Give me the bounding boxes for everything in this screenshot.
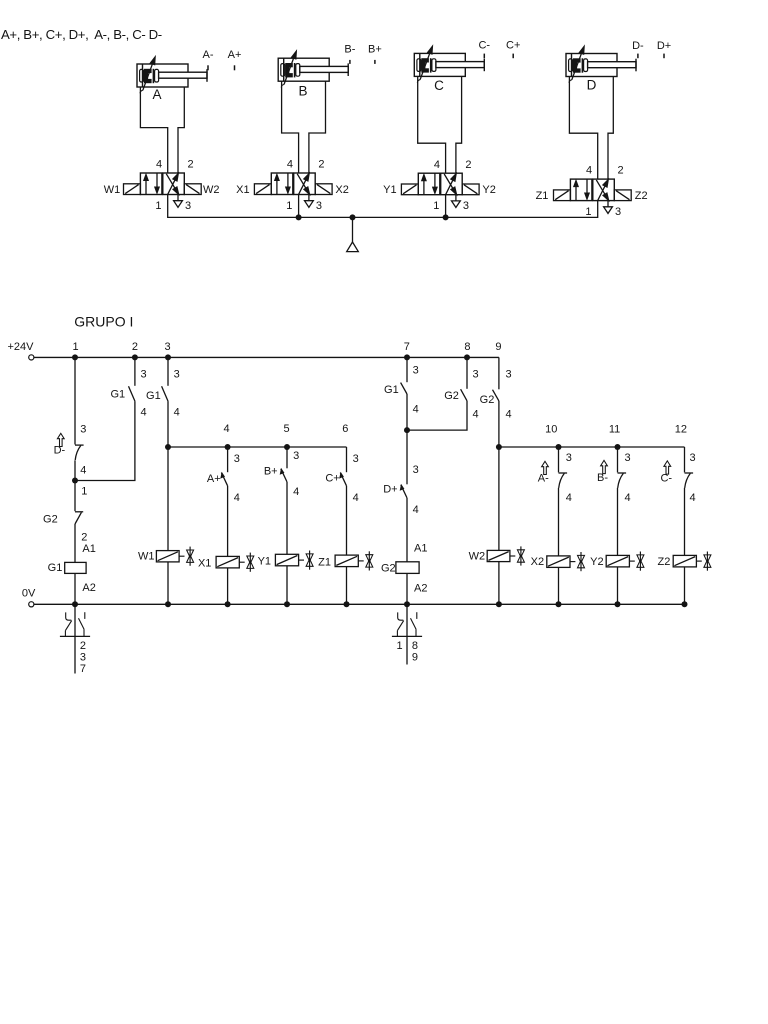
limit switch contact B- (NC): [618, 452, 631, 556]
position mark B-: [344, 43, 355, 64]
svg-text:A+: A+: [207, 473, 221, 485]
svg-text:6: 6: [342, 423, 348, 435]
rung 3 wire upper: [167, 357, 169, 385]
valve Y1/Y2 port numbers: [433, 159, 471, 212]
compressed air source: [347, 217, 359, 251]
limit switch contact D+ (NO): [383, 464, 419, 516]
wire: cylinder D tubing to valve ports 4/2: [569, 77, 613, 180]
relay G1 contact cross-reference table: [60, 604, 90, 675]
svg-text:3: 3: [293, 450, 299, 462]
valve Z1/Z2 port numbers: [585, 165, 623, 218]
svg-text:2: 2: [81, 532, 87, 544]
svg-text:4: 4: [472, 408, 478, 420]
rung 3 wire to sub-rail: [167, 401, 169, 447]
svg-text:A-: A-: [203, 49, 214, 61]
junction rung 11: [615, 444, 621, 450]
valve indicator for Z2: [696, 552, 711, 571]
relay contact G1 (NO) rung 2: [110, 368, 146, 418]
svg-text:3: 3: [413, 364, 419, 376]
wire: sub-rail group I (rungs 3-6): [168, 446, 347, 448]
svg-text:C+: C+: [325, 473, 339, 485]
svg-text:2: 2: [187, 159, 193, 171]
relay contact G1 (NO) rung 3: [146, 368, 180, 418]
limit switch contact C+ (NO): [325, 453, 358, 504]
position mark C-: [478, 40, 490, 59]
wire: sub-rail group II (rungs 9-12): [499, 446, 685, 448]
valve Y1/Y2 (5/2 double solenoid) body: [418, 173, 462, 195]
svg-text:8: 8: [412, 640, 418, 652]
cylinder A (double-acting, adjustable cushioning): [137, 64, 207, 87]
cylinder D cushioning adjustment arrow: [569, 47, 584, 83]
relay coil G2: [381, 543, 427, 605]
rung 1 wire upper: [74, 357, 76, 444]
solenoid Z2: [614, 190, 631, 201]
svg-text:X1: X1: [236, 184, 249, 196]
junction: valve X port 1 on bus: [296, 214, 302, 220]
svg-text:A1: A1: [414, 543, 427, 555]
junction rung 10: [556, 444, 562, 450]
position mark D-: [632, 40, 644, 58]
svg-text:3: 3: [505, 368, 511, 380]
svg-text:W1: W1: [138, 551, 155, 563]
svg-text:3: 3: [413, 464, 419, 476]
valve indicator for W2: [510, 546, 525, 565]
svg-text:2: 2: [132, 341, 138, 353]
svg-text:3: 3: [624, 452, 630, 464]
svg-text:B+: B+: [368, 43, 382, 55]
svg-text:W2: W2: [203, 184, 220, 196]
svg-text:A2: A2: [82, 582, 95, 594]
svg-text:4: 4: [413, 504, 419, 516]
cylinder A cushioning adjustment arrow: [140, 57, 155, 93]
svg-text:A: A: [152, 87, 161, 102]
svg-text:Y2: Y2: [482, 184, 495, 196]
svg-text:Z1: Z1: [536, 190, 549, 202]
valve indicator for X1: [239, 553, 254, 572]
svg-text:5: 5: [283, 423, 289, 435]
valve W1/W2 (5/2 double solenoid) body: [140, 173, 184, 195]
valve Z1/Z2 exhaust port 3: [604, 201, 613, 214]
valve X1/X2 port numbers: [286, 159, 324, 212]
junctions on +24V rail: [72, 354, 78, 360]
rung 9 wire from rail corner: [498, 357, 500, 389]
svg-text:4: 4: [624, 492, 630, 504]
svg-text:C-: C-: [660, 473, 672, 485]
solenoid coil Z1: [318, 555, 358, 604]
cylinder C (double-acting, adjustable cushioning): [414, 53, 484, 76]
svg-text:12: 12: [675, 424, 687, 436]
svg-text:D-: D-: [54, 445, 66, 457]
svg-text:+24V: +24V: [8, 341, 35, 353]
svg-text:G2: G2: [444, 390, 459, 402]
junction rung 5: [284, 444, 290, 450]
solenoid Y1: [401, 184, 418, 195]
rung 11 wire upper: [617, 447, 619, 472]
rung 4 wire lower: [227, 486, 229, 557]
position mark B+: [368, 43, 382, 64]
svg-text:G1: G1: [48, 562, 63, 574]
wire: compressed air supply bus (port 1 lines): [168, 195, 598, 218]
rung 1 wire middle: [74, 481, 76, 512]
svg-text:4: 4: [353, 492, 359, 504]
svg-text:3: 3: [185, 200, 191, 212]
actuated marker arrow B-: [597, 460, 608, 484]
svg-text:3: 3: [353, 453, 359, 465]
position mark A-: [203, 49, 214, 70]
rung 5 wire lower: [286, 482, 288, 554]
svg-text:1: 1: [397, 640, 403, 652]
svg-text:2: 2: [80, 640, 86, 652]
valve indicator for Z1: [358, 551, 373, 570]
svg-text:Z1: Z1: [318, 556, 331, 568]
wire rung 8 to rung 7 junction: [407, 401, 467, 430]
rung 4 wire upper: [227, 447, 229, 472]
junction: supply branch on bus: [350, 214, 356, 220]
svg-text:4: 4: [434, 159, 440, 171]
svg-text:G1: G1: [110, 389, 125, 401]
valve W1/W2 crossed arrows (rest position): [166, 174, 178, 195]
svg-text:G2: G2: [43, 513, 58, 525]
svg-text:4: 4: [287, 159, 293, 171]
valve indicator for Y1: [299, 551, 314, 570]
svg-text:A+: A+: [228, 49, 242, 61]
svg-text:A1: A1: [82, 543, 95, 555]
svg-text:D-: D-: [632, 40, 644, 52]
svg-text:D+: D+: [383, 483, 397, 495]
svg-text:0V: 0V: [22, 587, 36, 599]
svg-text:3: 3: [566, 452, 572, 464]
solenoid coil X2: [531, 556, 570, 604]
rung 8 wire: [466, 357, 468, 388]
rung 10 wire upper: [558, 447, 560, 472]
svg-text:2: 2: [318, 159, 324, 171]
limit switch contact B+ (NO): [264, 450, 299, 498]
junction rung7/rung8: [404, 427, 410, 433]
valve indicator for Y2: [629, 552, 644, 571]
svg-text:3: 3: [174, 368, 180, 380]
svg-text:B-: B-: [344, 43, 355, 55]
svg-text:B: B: [298, 84, 307, 99]
svg-text:3: 3: [234, 453, 240, 465]
valve indicator for X2: [570, 552, 585, 571]
svg-text:9: 9: [412, 651, 418, 663]
valve W1/W2 exhaust port 3: [174, 195, 183, 208]
svg-text:1: 1: [433, 200, 439, 212]
cylinder D (double-acting, adjustable cushioning): [566, 54, 636, 77]
svg-text:Y2: Y2: [590, 556, 603, 568]
svg-text:3: 3: [316, 200, 322, 212]
junction rung 9 sub-rail: [496, 444, 502, 450]
svg-text:4: 4: [234, 492, 240, 504]
rung 12 wire upper: [684, 447, 686, 472]
valve W1/W2 flow arrows (parallel position): [144, 173, 159, 195]
svg-text:2: 2: [617, 165, 623, 177]
svg-text:4: 4: [156, 159, 162, 171]
svg-text:10: 10: [545, 424, 557, 436]
svg-text:W2: W2: [469, 551, 486, 563]
svg-text:X2: X2: [531, 556, 544, 568]
junction rung1/rung2: [72, 478, 78, 484]
limit switch contact C- (NC): [685, 452, 696, 556]
svg-text:7: 7: [404, 341, 410, 353]
solenoid coil X1: [198, 556, 239, 604]
junction rung 4: [225, 444, 231, 450]
solenoid X1: [254, 184, 271, 195]
cylinder B cushioning adjustment arrow: [281, 51, 296, 87]
svg-text:X2: X2: [335, 184, 348, 196]
svg-text:1: 1: [81, 485, 87, 497]
svg-text:4: 4: [293, 486, 299, 498]
svg-text:4: 4: [141, 407, 147, 419]
position mark A+: [228, 49, 242, 70]
wire: cylinder C tubing to valve ports 4/2: [418, 76, 462, 173]
svg-text:4: 4: [566, 492, 572, 504]
svg-text:3: 3: [164, 341, 170, 353]
solenoid Y2: [462, 184, 479, 195]
svg-text:A-: A-: [538, 473, 549, 485]
rung 7 wire upper: [406, 357, 408, 382]
valve Z1/Z2 crossed arrows (rest position): [596, 180, 608, 201]
valve Z1/Z2 flow arrows (parallel position): [574, 179, 589, 201]
solenoid coil Y2: [590, 555, 629, 604]
svg-text:4: 4: [689, 492, 695, 504]
wire rung 2 to rung 1 junction: [75, 401, 135, 480]
svg-text:1: 1: [585, 206, 591, 218]
limit switch contact A+ (NO): [207, 453, 240, 504]
cylinder B (double-acting, adjustable cushioning): [278, 58, 348, 81]
svg-text:1: 1: [286, 200, 292, 212]
svg-text:4: 4: [224, 423, 230, 435]
svg-text:9: 9: [495, 341, 501, 353]
svg-text:3: 3: [141, 368, 147, 380]
rung numbers: [72, 341, 687, 436]
svg-text:Z2: Z2: [635, 190, 648, 202]
relay coil G1: [48, 543, 96, 604]
limit switch contact D- (NC): [75, 424, 86, 481]
valve Y1/Y2 flow arrows (parallel position): [422, 173, 437, 195]
svg-text:C: C: [434, 78, 444, 93]
rung 9 wire to sub-rail: [498, 401, 500, 447]
rung 3 wire lower: [167, 447, 169, 551]
position mark C+: [506, 40, 520, 59]
svg-text:C-: C-: [478, 40, 490, 52]
solenoid coil Z2: [657, 555, 696, 604]
limit switch contact A- (NC): [559, 452, 572, 556]
relay contact G2 (NC) rung 1: [43, 485, 87, 562]
svg-text:G2: G2: [381, 563, 396, 575]
rung 7 wire middle: [406, 394, 408, 430]
rung 2 wire: [134, 357, 136, 385]
solenoid Z1: [554, 190, 571, 201]
0V return rail: [22, 587, 685, 607]
+24V supply rail: [8, 341, 499, 360]
svg-text:3: 3: [80, 651, 86, 663]
solenoid coil Y1: [258, 554, 299, 604]
svg-text:4: 4: [586, 165, 592, 177]
valve indicator for W1: [179, 547, 194, 566]
svg-text:3: 3: [80, 424, 86, 436]
svg-text:4: 4: [413, 403, 419, 415]
relay contact G2 (NO) rung 8: [444, 368, 478, 420]
svg-text:GRUPO I: GRUPO I: [74, 313, 133, 329]
solenoid X2: [315, 184, 332, 195]
svg-text:Y1: Y1: [258, 556, 271, 568]
actuated marker arrow C-: [660, 461, 672, 485]
valve X1/X2 crossed arrows (rest position): [297, 174, 309, 195]
valve Y1/Y2 crossed arrows (rest position): [444, 174, 456, 195]
valve Z1/Z2 (5/2 double solenoid) body: [570, 179, 614, 201]
valve Y1/Y2 exhaust port 3: [452, 195, 461, 208]
junction: valve Y port 1 on bus: [443, 214, 449, 220]
position mark D+: [657, 40, 671, 58]
svg-text:2: 2: [465, 159, 471, 171]
rung 7 wire to contact D+: [406, 430, 408, 484]
actuated marker arrow A-: [538, 461, 549, 484]
valve X1/X2 flow arrows (parallel position): [275, 173, 290, 195]
rung 7 wire lower: [406, 498, 408, 562]
svg-text:Z2: Z2: [657, 556, 670, 568]
svg-text:11: 11: [609, 424, 620, 436]
svg-text:G2: G2: [480, 394, 495, 406]
relay G2 contact cross-reference table: [392, 604, 422, 664]
svg-text:3: 3: [472, 368, 478, 380]
svg-text:4: 4: [505, 408, 511, 420]
svg-text:B+: B+: [264, 466, 278, 478]
valve W1/W2 port numbers: [155, 159, 193, 212]
svg-text:X1: X1: [198, 558, 211, 570]
relay contact G1 (NO) rung 7: [384, 364, 419, 415]
svg-text:A+, B+, C+, D+, A-, B-, C- D-: A+, B+, C+, D+, A-, B-, C- D-: [1, 27, 162, 42]
valve X1/X2 (5/2 double solenoid) body: [271, 173, 315, 195]
svg-text:3: 3: [463, 200, 469, 212]
junctions on 0V rail: [72, 601, 78, 607]
svg-text:C+: C+: [506, 40, 520, 52]
actuated marker arrow D-: [54, 433, 66, 456]
svg-text:D+: D+: [657, 40, 671, 52]
relay contact G2 (NO) rung 9: [480, 368, 512, 420]
svg-text:Y1: Y1: [383, 184, 396, 196]
cylinder C cushioning adjustment arrow: [417, 46, 432, 82]
valve X1/X2 exhaust port 3: [305, 195, 314, 208]
svg-text:W1: W1: [104, 184, 121, 196]
solenoid W2: [184, 184, 201, 195]
svg-text:3: 3: [615, 206, 621, 218]
svg-text:A2: A2: [414, 582, 427, 594]
svg-text:3: 3: [689, 452, 695, 464]
svg-text:4: 4: [174, 407, 180, 419]
svg-text:7: 7: [80, 663, 86, 675]
svg-text:8: 8: [464, 341, 470, 353]
solenoid coil W1: [138, 551, 179, 605]
rung 5 wire upper: [286, 447, 288, 468]
svg-text:B-: B-: [597, 472, 608, 484]
svg-text:4: 4: [80, 465, 86, 477]
rung 9 wire lower: [498, 447, 500, 550]
rung 6 wire lower: [346, 486, 348, 555]
svg-text:1: 1: [155, 200, 161, 212]
svg-text:G1: G1: [384, 384, 399, 396]
svg-text:1: 1: [72, 341, 78, 353]
wire: cylinder A tubing to valve ports 4/2: [140, 87, 184, 173]
junction rung 3 sub-rail: [165, 444, 171, 450]
svg-text:D: D: [587, 78, 597, 93]
solenoid coil W2: [469, 550, 510, 604]
wire: cylinder B tubing to valve ports 4/2: [282, 81, 326, 173]
rung 6 wire upper: [346, 447, 348, 472]
svg-text:G1: G1: [146, 390, 161, 402]
solenoid W1: [124, 184, 141, 195]
